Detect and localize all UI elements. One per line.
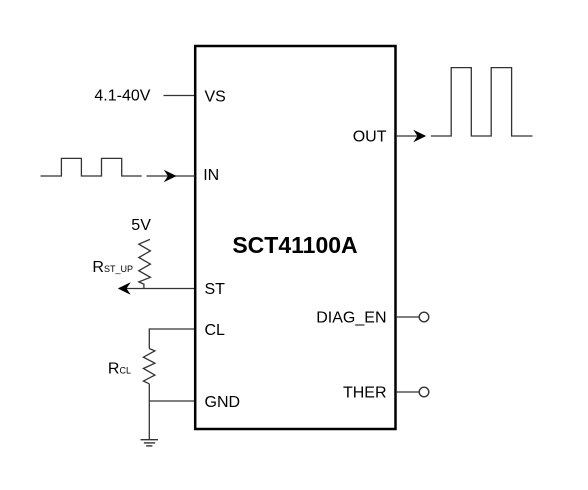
svg-text:OUT: OUT [353, 128, 387, 145]
terminal circle THER [419, 387, 429, 397]
wire ST [119, 288, 194, 290]
svg-text:VS: VS [205, 88, 226, 105]
ground symbol [141, 440, 159, 446]
svg-text:IN: IN [203, 167, 219, 184]
wire GND [149, 400, 194, 402]
output waveform [431, 68, 533, 136]
resistor R_ST_UP [139, 239, 151, 288]
terminal circle DIAG_EN [419, 312, 429, 322]
arrowhead OUT [413, 130, 426, 143]
wire VS supply [164, 95, 195, 97]
wire THER [396, 391, 419, 393]
svg-text:SCT41100A: SCT41100A [232, 232, 357, 258]
svg-text:5V: 5V [131, 217, 151, 234]
wire DIAG_EN [396, 316, 419, 318]
wire CL [149, 329, 194, 349]
svg-text:DIAG_EN: DIAG_EN [316, 310, 386, 327]
input waveform [41, 158, 142, 176]
svg-text:ST: ST [205, 281, 226, 298]
wire R_CL bottom to GND pin and ground [148, 384, 150, 440]
svg-text:THER: THER [343, 384, 387, 401]
resistor R_CL [143, 349, 155, 384]
arrowhead ST (points left) [118, 282, 131, 295]
ic U1 body [195, 46, 395, 429]
svg-text:GND: GND [205, 394, 241, 411]
arrowhead into IN [164, 170, 177, 183]
svg-text:4.1-40V: 4.1-40V [94, 87, 150, 104]
svg-text:CL: CL [205, 322, 226, 339]
wire OUT [396, 135, 424, 137]
wire IN [147, 175, 196, 177]
